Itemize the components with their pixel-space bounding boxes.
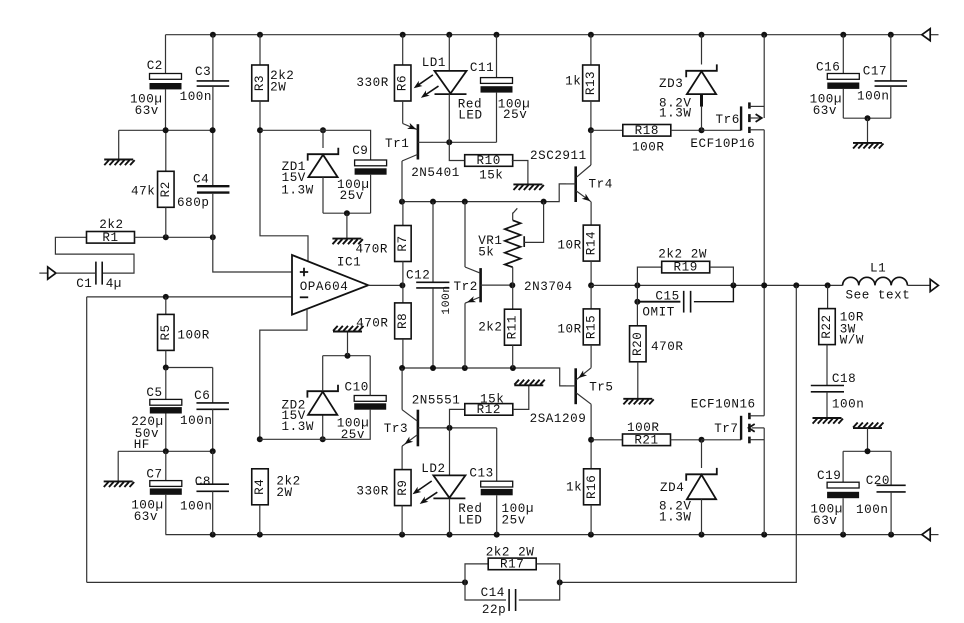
svg-text:2W: 2W bbox=[276, 486, 292, 500]
node C5/C7 and C6/C8 junctions bbox=[163, 448, 169, 454]
svg-text:100n: 100n bbox=[832, 397, 864, 411]
svg-text:2k2 2W: 2k2 2W bbox=[486, 546, 535, 560]
svg-text:Tr2: Tr2 bbox=[454, 280, 478, 294]
svg-text:R20: R20 bbox=[631, 332, 645, 356]
wire -15V node to ZD2 and C10 bbox=[260, 410, 370, 440]
resistor R15 bbox=[590, 285, 592, 309]
svg-text:470R: 470R bbox=[356, 243, 388, 257]
node junctions lower driver rail bbox=[399, 365, 405, 371]
capacitor C12 bbox=[432, 202, 434, 282]
svg-text:C9: C9 bbox=[352, 144, 368, 158]
capacitor C19 bbox=[842, 451, 844, 482]
resistor R5 bbox=[165, 297, 167, 314]
capacitor C9 bbox=[355, 160, 387, 175]
svg-text:63v: 63v bbox=[813, 104, 837, 118]
wire output rail bbox=[591, 284, 843, 286]
svg-text:330R: 330R bbox=[356, 76, 388, 90]
svg-text:Tr1: Tr1 bbox=[385, 137, 409, 151]
node Tr3 base junction bbox=[447, 425, 453, 431]
resistor R8 bbox=[402, 285, 404, 302]
node feedback network junctions bbox=[462, 579, 468, 585]
wire R5 to C5/C6 bbox=[166, 367, 213, 369]
svg-text:4µ: 4µ bbox=[106, 277, 122, 291]
svg-text:63v: 63v bbox=[135, 104, 159, 118]
svg-text:63v: 63v bbox=[813, 514, 837, 528]
wire lower driver rail bbox=[402, 368, 566, 386]
mosfet Tr6 ECF10P16 bbox=[702, 129, 742, 131]
wire input to C1 bbox=[56, 272, 95, 274]
wire op-amp output bbox=[368, 284, 402, 286]
resistor R12 bbox=[450, 409, 465, 428]
svg-text:680p: 680p bbox=[177, 196, 209, 210]
svg-text:See text: See text bbox=[846, 288, 911, 302]
svg-text:25v: 25v bbox=[340, 189, 364, 203]
svg-text:C14: C14 bbox=[481, 586, 505, 600]
capacitor C6 bbox=[212, 368, 214, 403]
svg-text:C17: C17 bbox=[863, 64, 887, 78]
node Tr5/R16/R21 junction bbox=[588, 437, 594, 443]
svg-text:R4: R4 bbox=[253, 479, 267, 495]
svg-text:C15: C15 bbox=[655, 289, 679, 303]
ground R12 inverted bbox=[514, 380, 544, 386]
wire upper driver rail bbox=[402, 184, 566, 202]
capacitor C2 bbox=[165, 35, 167, 74]
svg-text:LD1: LD1 bbox=[422, 56, 446, 70]
wire negative supply rail V- bbox=[166, 534, 922, 536]
node C2/C3 ground junctions bbox=[163, 127, 169, 133]
svg-text:63v: 63v bbox=[134, 510, 158, 524]
node C19/C20 ground junction bbox=[865, 448, 871, 454]
svg-text:C20: C20 bbox=[866, 474, 890, 488]
svg-text:R2: R2 bbox=[159, 181, 173, 197]
svg-text:25v: 25v bbox=[503, 108, 527, 122]
svg-text:LED: LED bbox=[458, 108, 482, 122]
svg-text:1k: 1k bbox=[566, 481, 582, 495]
node junctions output rail bbox=[634, 282, 640, 288]
transistor Tr3 2N5551 bbox=[401, 368, 403, 410]
svg-text:R21: R21 bbox=[634, 433, 658, 447]
resistor R6 bbox=[402, 35, 404, 65]
capacitor C17 bbox=[890, 35, 892, 81]
resistor R16 bbox=[590, 440, 592, 469]
potentiometer VR1 5k bbox=[513, 208, 518, 220]
svg-text:C10: C10 bbox=[345, 380, 369, 394]
svg-text:R10: R10 bbox=[477, 154, 501, 168]
svg-text:100n: 100n bbox=[180, 414, 212, 428]
svg-text:2k2 2W: 2k2 2W bbox=[658, 247, 707, 261]
svg-text:10R: 10R bbox=[557, 322, 581, 336]
capacitor C8 bbox=[212, 451, 214, 484]
transistor Tr4 2SC2911 bbox=[574, 166, 577, 202]
connector output arrow bbox=[930, 279, 938, 291]
resistor R21 bbox=[591, 439, 623, 441]
wire Tr1 base node bbox=[449, 141, 496, 143]
node junctions upper driver rail bbox=[399, 199, 405, 205]
wire ZD1/C9 to ground bbox=[323, 212, 371, 214]
node input summing junction bbox=[163, 234, 169, 240]
op-amp IC1 OPA604 bbox=[292, 255, 368, 315]
node ZD3/gate junction bbox=[699, 127, 705, 133]
node ZD4/gate junction bbox=[699, 437, 705, 443]
resistor R22 bbox=[827, 285, 829, 308]
node C5 top junction bbox=[163, 365, 169, 371]
svg-text:15k: 15k bbox=[480, 392, 504, 406]
resistor R14 bbox=[583, 225, 600, 261]
svg-text:1k: 1k bbox=[565, 75, 581, 89]
svg-text:100n: 100n bbox=[441, 285, 453, 314]
resistor R3 bbox=[259, 35, 261, 65]
resistor R18 bbox=[591, 129, 623, 131]
svg-text:1.3W: 1.3W bbox=[659, 510, 691, 524]
wire C16/C17 ground bus bbox=[843, 117, 891, 119]
wire ZD2/C10 to ground bbox=[323, 355, 371, 357]
mosfet Tr7 ECF10N16 bbox=[702, 439, 742, 441]
node ZD1/C9 ground junction bbox=[344, 210, 350, 216]
svg-text:2N5551: 2N5551 bbox=[412, 393, 461, 407]
svg-text:15k: 15k bbox=[479, 169, 503, 183]
connector input arrow bbox=[39, 272, 48, 274]
resistor R9 bbox=[395, 470, 412, 506]
svg-text:25v: 25v bbox=[341, 428, 365, 442]
wire C19/C20 ground bus bbox=[843, 450, 891, 452]
wire global feedback from output bbox=[560, 285, 797, 582]
zener ZD4 bbox=[701, 440, 703, 468]
svg-text:C8: C8 bbox=[195, 475, 211, 489]
led LD1 bbox=[448, 35, 450, 71]
svg-text:L1: L1 bbox=[870, 262, 886, 276]
zener ZD1 bbox=[322, 130, 324, 148]
svg-text:R7: R7 bbox=[396, 235, 410, 251]
node feedback junction at R5 bbox=[163, 294, 169, 300]
svg-text:100n: 100n bbox=[857, 89, 889, 103]
node op-amp output junction R7/R8 bbox=[399, 282, 405, 288]
wire ground bus lower-left bbox=[118, 450, 213, 452]
svg-text:ZD3: ZD3 bbox=[659, 77, 683, 91]
svg-text:R14: R14 bbox=[585, 231, 599, 255]
transistor Tr1 2N5401 bbox=[402, 101, 404, 124]
ground R20 bbox=[623, 399, 653, 405]
node output rail R14/R15 junction bbox=[588, 282, 594, 288]
capacitor C16 bbox=[842, 35, 844, 74]
svg-text:100n: 100n bbox=[180, 90, 212, 104]
node ZD2/C10 ground junction bbox=[345, 353, 351, 359]
svg-text:Tr3: Tr3 bbox=[384, 422, 408, 436]
svg-text:Tr7: Tr7 bbox=[714, 422, 738, 436]
svg-text:C3: C3 bbox=[195, 65, 211, 79]
capacitor C14 bbox=[465, 582, 506, 600]
capacitor C7 bbox=[165, 451, 167, 480]
capacitor C11 bbox=[496, 35, 498, 78]
svg-text:C19: C19 bbox=[817, 469, 841, 483]
svg-text:470R: 470R bbox=[651, 340, 683, 354]
ground C16/C17 bbox=[867, 118, 869, 143]
svg-text:R1: R1 bbox=[102, 231, 118, 245]
svg-text:ECF10N16: ECF10N16 bbox=[691, 398, 756, 412]
svg-text:2SC2911: 2SC2911 bbox=[530, 149, 587, 163]
svg-text:C18: C18 bbox=[832, 372, 856, 386]
wire Tr3 base node bbox=[450, 427, 497, 429]
wire C1 to R1 bbox=[55, 237, 134, 273]
svg-text:Tr6: Tr6 bbox=[716, 113, 740, 127]
svg-text:1.3W: 1.3W bbox=[282, 420, 314, 434]
capacitor C13 bbox=[496, 428, 498, 481]
wire R3 to op-amp V+ pin bbox=[260, 101, 308, 263]
transistor Tr5 2SA1209 bbox=[574, 368, 577, 404]
svg-text:2k2: 2k2 bbox=[99, 218, 123, 232]
svg-text:470R: 470R bbox=[356, 317, 388, 331]
ground upper-left bbox=[118, 130, 120, 159]
svg-text:ECF10P16: ECF10P16 bbox=[690, 137, 755, 151]
svg-text:C1: C1 bbox=[76, 277, 92, 291]
resistor R20 bbox=[636, 285, 638, 325]
svg-text:LD2: LD2 bbox=[421, 462, 445, 476]
svg-text:C6: C6 bbox=[194, 389, 210, 403]
svg-text:ZD4: ZD4 bbox=[660, 481, 684, 495]
led LD2 light arrows bbox=[415, 481, 432, 493]
svg-text:C16: C16 bbox=[816, 60, 840, 74]
svg-text:C2: C2 bbox=[147, 59, 163, 73]
zener ZD3 bbox=[701, 35, 703, 65]
svg-text:Tr4: Tr4 bbox=[589, 178, 613, 192]
svg-text:100R: 100R bbox=[627, 421, 659, 435]
svg-text:Tr5: Tr5 bbox=[589, 380, 613, 394]
capacitor C20 bbox=[890, 451, 892, 485]
svg-text:R11: R11 bbox=[506, 315, 520, 339]
resistor R2 bbox=[165, 130, 167, 171]
svg-text:100R: 100R bbox=[632, 140, 664, 154]
svg-text:R5: R5 bbox=[159, 324, 173, 340]
svg-text:2SA1209: 2SA1209 bbox=[530, 412, 587, 426]
zener ZD2 bbox=[322, 415, 324, 440]
svg-text:C4: C4 bbox=[193, 173, 209, 187]
capacitor C15 (omit) bbox=[637, 301, 680, 303]
svg-text:2k2: 2k2 bbox=[478, 320, 502, 334]
capacitor C5 bbox=[165, 368, 167, 400]
resistor R7 bbox=[402, 202, 404, 226]
resistor R17 bbox=[465, 564, 488, 583]
svg-text:OMIT: OMIT bbox=[642, 305, 674, 319]
resistor R19 bbox=[637, 267, 661, 285]
node junctions on V+ rail bbox=[210, 32, 216, 38]
svg-text:1.3W: 1.3W bbox=[281, 184, 313, 198]
wire L1 to output connector bbox=[907, 284, 930, 286]
capacitor C3 bbox=[212, 35, 214, 81]
resistor R11 bbox=[512, 285, 514, 309]
ground C19/C20 inverted bbox=[853, 423, 883, 429]
svg-text:OPA604: OPA604 bbox=[300, 280, 349, 294]
svg-text:25v: 25v bbox=[502, 513, 526, 527]
svg-text:C5: C5 bbox=[146, 386, 162, 400]
wire feedback to op-amp inverting input bbox=[87, 297, 465, 583]
ground ZD2/C10 inverted bbox=[347, 332, 349, 356]
node R13/Tr4 collector junction bbox=[588, 127, 594, 133]
svg-text:W/W: W/W bbox=[840, 333, 864, 347]
svg-text:R9: R9 bbox=[396, 479, 410, 495]
wire op-amp V- pin bbox=[260, 309, 307, 440]
wire ground bus upper-left bbox=[119, 129, 214, 131]
svg-text:C7: C7 bbox=[146, 468, 162, 482]
resistor R13 bbox=[590, 35, 592, 65]
svg-text:R22: R22 bbox=[820, 314, 834, 338]
svg-text:22p: 22p bbox=[482, 603, 506, 617]
svg-text:R8: R8 bbox=[396, 313, 410, 329]
ground R10 bbox=[513, 184, 543, 190]
svg-text:330R: 330R bbox=[356, 485, 388, 499]
svg-text:R18: R18 bbox=[635, 124, 659, 138]
capacitor C4 bbox=[212, 130, 214, 185]
connector V+ supply arrow bbox=[922, 29, 930, 41]
svg-text:R3: R3 bbox=[253, 75, 267, 91]
node C15/R20 junction bbox=[634, 299, 640, 305]
svg-text:HF: HF bbox=[134, 438, 150, 452]
svg-text:10R: 10R bbox=[557, 239, 581, 253]
wire R1 to input node bbox=[135, 236, 213, 238]
svg-text:C11: C11 bbox=[470, 61, 494, 75]
wire node to op-amp + input bbox=[213, 237, 292, 272]
svg-text:100n: 100n bbox=[180, 500, 212, 514]
svg-text:5k: 5k bbox=[478, 245, 494, 259]
node R4/ZD2 -15V junction bbox=[257, 436, 263, 442]
svg-text:2N5401: 2N5401 bbox=[411, 166, 460, 180]
wire feedback to op-amp - input bbox=[87, 296, 292, 298]
inductor L1 bbox=[843, 277, 908, 285]
wire +15V node to ZD1 and C9 bbox=[260, 130, 371, 160]
svg-text:R13: R13 bbox=[584, 71, 598, 95]
svg-text:47k: 47k bbox=[131, 185, 155, 199]
node R3/ZD1 +15V junction bbox=[257, 127, 263, 133]
svg-text:2W: 2W bbox=[270, 81, 286, 95]
node Tr1 base junction bbox=[446, 139, 452, 145]
capacitor C1 bbox=[96, 262, 102, 285]
svg-text:1.3W: 1.3W bbox=[659, 107, 691, 121]
svg-text:LED: LED bbox=[458, 513, 482, 527]
svg-text:100n: 100n bbox=[856, 503, 888, 517]
ground C18 bbox=[813, 418, 843, 424]
ground ZD1/C9 bbox=[346, 213, 348, 238]
connector V- supply arrow bbox=[922, 529, 930, 541]
svg-text:R16: R16 bbox=[585, 475, 599, 499]
capacitor C10 bbox=[354, 396, 386, 410]
led LD1 light arrows bbox=[416, 75, 433, 87]
resistor R4 bbox=[252, 469, 269, 505]
svg-text:R19: R19 bbox=[674, 261, 698, 275]
svg-text:R6: R6 bbox=[396, 75, 410, 91]
svg-text:C12: C12 bbox=[406, 269, 430, 283]
capacitor C18 bbox=[811, 386, 844, 392]
svg-text:100R: 100R bbox=[177, 329, 209, 343]
transistor Tr2 2N3704 bbox=[464, 202, 466, 267]
wire positive supply rail V+ bbox=[166, 34, 922, 36]
svg-text:R15: R15 bbox=[585, 315, 599, 339]
node junctions on V- rail bbox=[210, 532, 216, 538]
node C16/C17 ground junction bbox=[865, 115, 871, 121]
svg-text:IC1: IC1 bbox=[337, 256, 361, 270]
resistor R1 bbox=[87, 231, 135, 245]
svg-text:2N3704: 2N3704 bbox=[524, 280, 573, 294]
ground lower-left bbox=[117, 451, 119, 481]
node Tr2 base junction bbox=[509, 282, 515, 288]
led LD2 bbox=[449, 428, 451, 476]
svg-text:C13: C13 bbox=[469, 466, 493, 480]
resistor R10 bbox=[449, 142, 465, 160]
